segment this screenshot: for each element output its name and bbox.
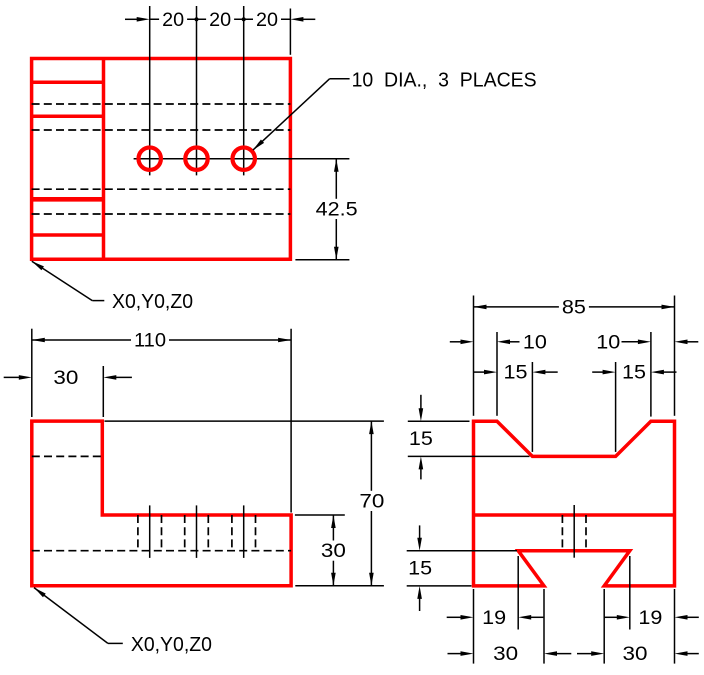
svg-text:85: 85	[562, 297, 586, 319]
svg-text:20: 20	[162, 9, 184, 31]
svg-text:X0,Y0,Z0: X0,Y0,Z0	[131, 633, 212, 656]
svg-text:X0,Y0,Z0: X0,Y0,Z0	[112, 290, 193, 313]
svg-text:30: 30	[321, 540, 346, 562]
svg-text:30: 30	[53, 367, 78, 389]
svg-text:110: 110	[134, 330, 166, 352]
svg-text:70: 70	[359, 491, 384, 513]
svg-text:10 DIA., 3 PLACES: 10 DIA., 3 PLACES	[352, 68, 537, 91]
svg-text:10: 10	[523, 331, 547, 353]
svg-text:15: 15	[409, 428, 433, 450]
svg-text:20: 20	[256, 9, 278, 31]
svg-text:19: 19	[482, 607, 506, 629]
svg-text:15: 15	[504, 362, 528, 384]
svg-text:15: 15	[408, 558, 432, 580]
svg-text:19: 19	[638, 607, 662, 629]
svg-text:42.5: 42.5	[316, 199, 358, 221]
svg-text:15: 15	[622, 362, 646, 384]
svg-text:20: 20	[209, 9, 231, 31]
svg-text:30: 30	[623, 643, 648, 665]
svg-text:30: 30	[493, 643, 518, 665]
svg-text:10: 10	[596, 331, 620, 353]
